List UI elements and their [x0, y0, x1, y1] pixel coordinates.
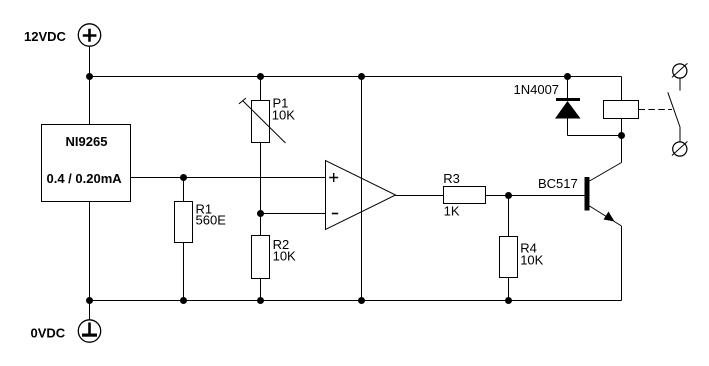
- svg-text:560E: 560E: [196, 213, 227, 228]
- wire collector to node: [621, 136, 623, 163]
- svg-text:10K: 10K: [273, 249, 296, 264]
- wire P1 bottom to R2 top: [260, 143, 262, 236]
- wire 12VDC terminal to NI9265 top: [89, 46, 91, 124]
- terminal 12VDC (+): [78, 24, 100, 46]
- node junction at R4 top: [505, 192, 512, 199]
- terminal switch top: [672, 63, 688, 78]
- module NI9265 box: [42, 125, 131, 202]
- resistor R1: [175, 202, 193, 243]
- node junction bottom bus at R4: [505, 297, 512, 304]
- wire R3 to transistor base: [486, 195, 585, 197]
- wire dashed relay actuation link: [639, 109, 673, 111]
- node junction bottom bus at R1: [180, 297, 187, 304]
- node junction at op-amp minus input: [257, 210, 264, 217]
- svg-text:NI9265: NI9265: [66, 134, 108, 149]
- svg-text:10K: 10K: [520, 253, 543, 268]
- wire R1 top lead: [183, 178, 185, 202]
- terminal 0VDC (earth): [78, 320, 100, 342]
- wire switch top lead: [679, 78, 681, 90]
- switch blade contact: [668, 92, 680, 127]
- svg-text:0.4 / 0.20mA: 0.4 / 0.20mA: [47, 171, 123, 186]
- wire NI9265 output to op-amp plus input: [131, 177, 326, 179]
- svg-text:R3: R3: [443, 171, 460, 186]
- transistor Q1 BC517: [585, 163, 622, 227]
- svg-text:10K: 10K: [272, 108, 295, 123]
- svg-text:0VDC: 0VDC: [31, 326, 66, 341]
- node junction output line at R1: [180, 174, 187, 181]
- wire R4 top lead: [508, 196, 510, 237]
- wire NI9265 bottom to bottom bus: [89, 202, 91, 321]
- wire op-amp supply vertical: [361, 77, 363, 301]
- potentiometer P1: [239, 96, 295, 144]
- wire diode cathode lead: [567, 77, 569, 100]
- node junction diode/relay/collector: [618, 132, 625, 139]
- wire R2 bottom lead: [260, 279, 262, 301]
- wire op-amp output to R3: [396, 195, 444, 197]
- diode D1 1N4007: [555, 98, 581, 119]
- wire R1 bottom lead: [183, 243, 185, 301]
- wire emitter to bottom bus: [621, 226, 623, 301]
- wire P1 top lead: [260, 77, 262, 101]
- node junction bottom bus at NI9265: [86, 297, 93, 304]
- svg-text:1K: 1K: [444, 204, 460, 219]
- wire top supply bus: [90, 76, 622, 78]
- node junction bottom bus at op-amp supply: [358, 297, 365, 304]
- wire diode anode lead: [567, 119, 569, 136]
- resistor R4: [500, 237, 518, 278]
- wire minus input line: [261, 213, 326, 215]
- resistor R2: [252, 236, 270, 279]
- wire diode anode to relay node: [568, 135, 622, 137]
- svg-text:BC517: BC517: [538, 176, 578, 191]
- wire switch bottom lead: [679, 127, 681, 142]
- wire bottom return bus: [90, 300, 622, 302]
- svg-text:12VDC: 12VDC: [24, 29, 67, 44]
- wire top bus corner down to relay: [621, 77, 623, 101]
- wire relay bottom to node: [621, 119, 623, 136]
- svg-text:1N4007: 1N4007: [514, 82, 560, 97]
- terminal switch bottom: [672, 142, 688, 157]
- node junction top bus at diode: [564, 73, 571, 80]
- node junction top bus at NI9265: [86, 73, 93, 80]
- resistor R3: [444, 187, 486, 204]
- wire R4 bottom lead: [508, 278, 510, 301]
- relay coil K1: [604, 101, 639, 119]
- node junction top bus at op-amp supply: [358, 73, 365, 80]
- node junction bottom bus at R2: [257, 297, 264, 304]
- node junction top bus at P1: [257, 73, 264, 80]
- op-amp U1: [326, 161, 396, 230]
